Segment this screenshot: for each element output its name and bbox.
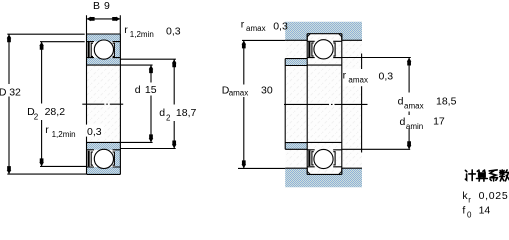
- svg-text:1,2min: 1,2min: [130, 30, 154, 39]
- seal left top: [88, 42, 90, 58]
- housing tab lines top: [285, 39, 362, 41]
- svg-text:r: r: [124, 24, 128, 36]
- svg-text:15: 15: [145, 84, 157, 96]
- Damax dimension: [238, 167, 285, 169]
- shaft outline: [284, 59, 286, 150]
- svg-text:2: 2: [166, 114, 171, 123]
- 数: [500, 170, 509, 181]
- svg-text:r: r: [241, 18, 245, 30]
- housing tab lines bottom: [285, 167, 362, 169]
- inner ring bottom band: [87, 142, 121, 149]
- da bottom line: [342, 148, 410, 150]
- r 1,2min 0,3 bottom: [86, 125, 104, 137]
- svg-text:r: r: [45, 124, 49, 136]
- D2 dimension: [40, 41, 85, 43]
- svg-text:amax: amax: [348, 76, 368, 85]
- svg-text:amax: amax: [229, 89, 249, 98]
- band edge lines top section: [87, 41, 121, 43]
- da top line: [342, 57, 411, 59]
- housing top: [285, 22, 362, 41]
- svg-text:0,025: 0,025: [479, 190, 509, 202]
- svg-text:d: d: [135, 84, 141, 96]
- svg-text:f: f: [462, 205, 465, 217]
- svg-text:D: D: [0, 86, 7, 98]
- 系: [489, 170, 497, 181]
- bearing outline: [87, 34, 121, 174]
- inner ring top band: [87, 58, 121, 65]
- B dimension: [87, 15, 121, 34]
- shaft shoulder strip left top: [285, 59, 307, 65]
- hatch region: [285, 22, 362, 187]
- svg-text:14: 14: [479, 205, 491, 217]
- svg-text:2: 2: [34, 113, 39, 122]
- svg-text:d: d: [159, 107, 165, 119]
- svg-text:amax: amax: [246, 24, 266, 33]
- svg-text:r: r: [343, 69, 347, 81]
- ball bottom right: [314, 149, 333, 168]
- centerline right: [284, 103, 368, 105]
- right side column bottom section: [115, 150, 120, 167]
- svg-text:amin: amin: [406, 122, 423, 131]
- damax/damin dimension line: [408, 58, 410, 150]
- svg-text:28,2: 28,2: [45, 106, 66, 118]
- seal left bottom: [88, 151, 90, 167]
- svg-text:17: 17: [433, 116, 445, 128]
- ball top right: [314, 40, 333, 59]
- r amax 0,3 (shaft): [343, 69, 374, 86]
- shaft shoulder strip left bottom: [285, 143, 307, 149]
- ball bottom: [94, 149, 113, 168]
- right side column top section: [115, 42, 120, 58]
- d2 dimension: [120, 58, 175, 60]
- band edge lines bottom section: [87, 149, 121, 151]
- band edge lines: [307, 40, 342, 42]
- bearing body hatch: [87, 34, 121, 174]
- seals right view: [308, 42, 310, 58]
- ball top: [94, 40, 113, 59]
- d dimension: [120, 64, 152, 66]
- seal bracket left top: [91, 43, 93, 56]
- svg-text:d: d: [400, 116, 406, 128]
- bearing (right) outline: [307, 34, 342, 175]
- svg-text:0,3: 0,3: [166, 25, 181, 37]
- seal bracket right bottom: [113, 152, 115, 165]
- svg-text:r: r: [468, 196, 471, 205]
- D dimension: [7, 33, 84, 35]
- svg-text:d: d: [398, 95, 404, 107]
- outer ring top band: [87, 34, 121, 41]
- centerline left: [82, 103, 123, 105]
- 计算系数 (hand drawn strokes): [465, 170, 509, 181]
- bearing chamfer notches (blue): [307, 34, 310, 37]
- seal bracket left bottom: [91, 152, 93, 165]
- svg-text:30: 30: [261, 84, 273, 96]
- svg-text:amax: amax: [404, 102, 424, 111]
- svg-text:9: 9: [104, 0, 110, 12]
- svg-text:0,3: 0,3: [87, 126, 102, 138]
- svg-text:0: 0: [467, 210, 472, 219]
- seal bracket right top: [113, 43, 115, 56]
- outer ring bottom band: [87, 167, 121, 174]
- svg-text:18,7: 18,7: [176, 107, 197, 119]
- svg-text:0,3: 0,3: [379, 70, 394, 82]
- shaft right end: [361, 54, 363, 153]
- svg-text:32: 32: [9, 86, 21, 98]
- r amax 0,3 (housing) + leader: [242, 39, 285, 41]
- svg-text:1,2min: 1,2min: [52, 130, 76, 139]
- svg-text:18,5: 18,5: [436, 95, 457, 107]
- housing bottom: [285, 168, 362, 187]
- svg-text:B: B: [93, 0, 100, 12]
- 算: [477, 170, 488, 181]
- 计: [465, 170, 475, 181]
- svg-text:0,3: 0,3: [273, 20, 288, 32]
